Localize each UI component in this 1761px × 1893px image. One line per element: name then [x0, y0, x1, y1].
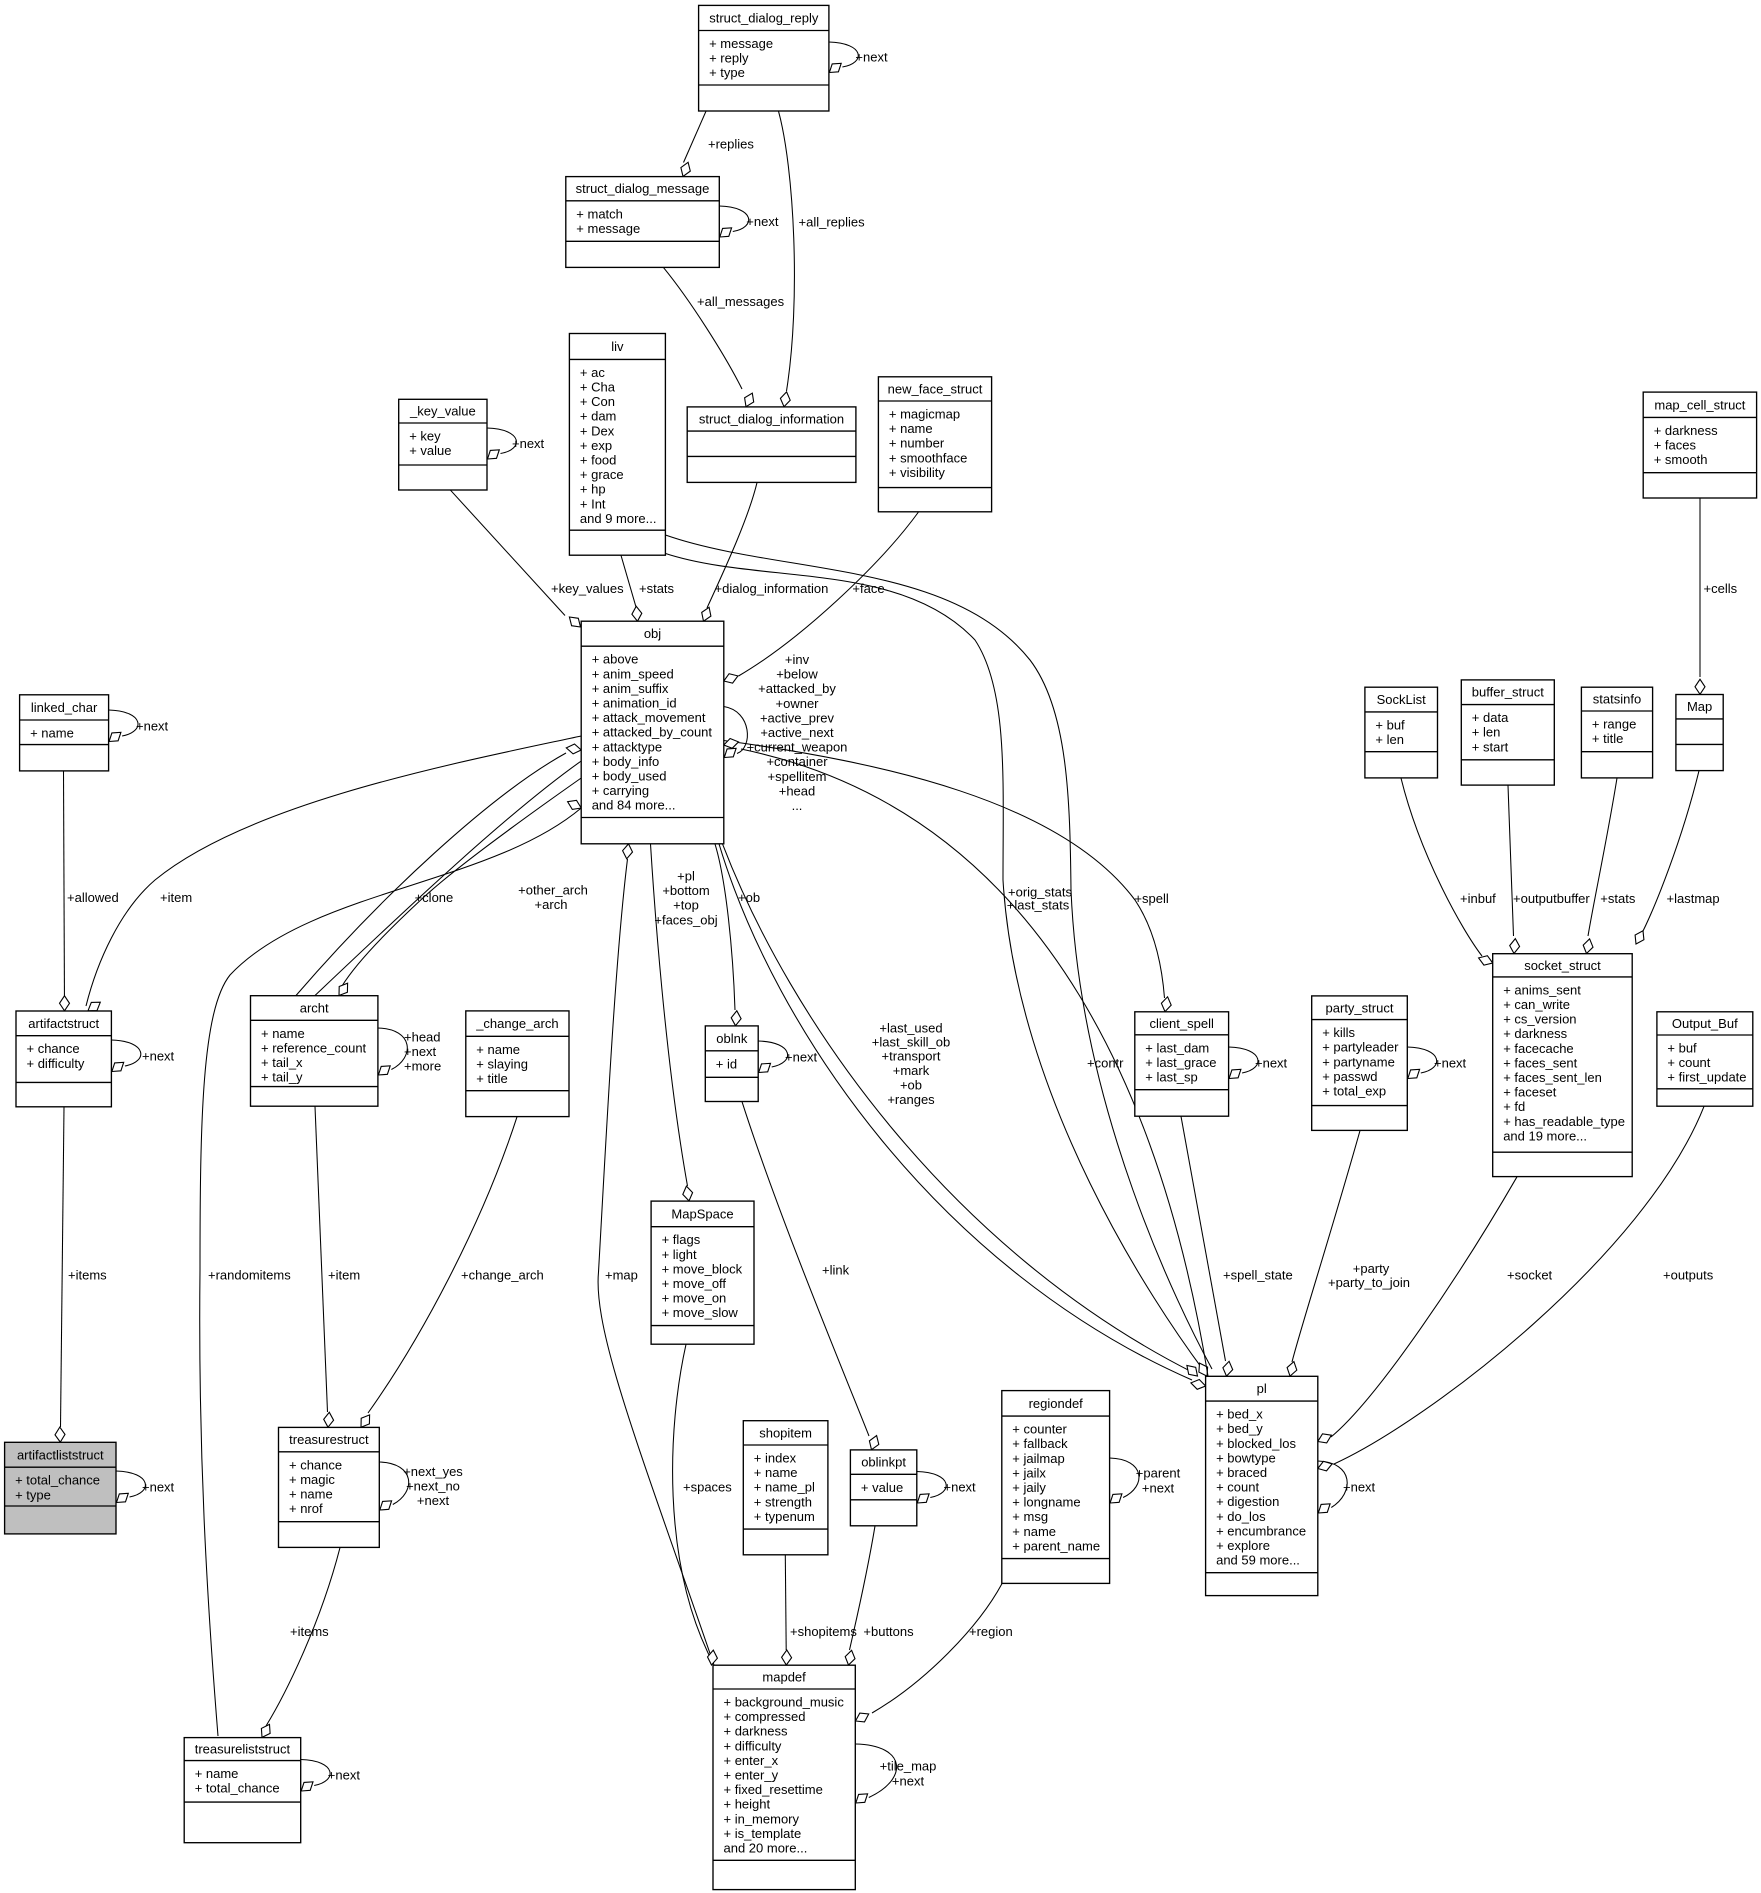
svg-text:+randomitems: +randomitems: [208, 1268, 291, 1283]
svg-text:+more: +more: [404, 1059, 441, 1074]
class box map_cell_struct: [1643, 392, 1756, 498]
svg-text:mapdef: mapdef: [762, 1670, 806, 1685]
svg-text:struct_dialog_information: struct_dialog_information: [699, 412, 844, 427]
svg-text:+ jailx: + jailx: [1012, 1465, 1046, 1480]
svg-text:+ darkness: + darkness: [1654, 423, 1718, 438]
edge oblnk +next self-loop: [758, 1041, 787, 1067]
class box obj: [581, 621, 724, 844]
svg-text:+ranges: +ranges: [887, 1092, 935, 1107]
svg-text:+owner: +owner: [776, 696, 820, 711]
svg-text:+ total_chance: + total_chance: [195, 1781, 280, 1796]
svg-text:+transport: +transport: [882, 1049, 941, 1064]
edge +spell_state (client_spell to pl): [1181, 1116, 1226, 1361]
class box oblnk: [705, 1026, 758, 1102]
svg-text:+socket: +socket: [1507, 1268, 1553, 1283]
svg-text:+next: +next: [136, 718, 169, 733]
edge treasureliststruct +next self-loop: [301, 1760, 330, 1786]
svg-text:MapSpace: MapSpace: [671, 1206, 733, 1221]
svg-text:+ anim_speed: + anim_speed: [592, 666, 674, 681]
edge +arch second line (archt to obj): [315, 761, 581, 996]
svg-text:+last_skill_ob: +last_skill_ob: [872, 1035, 950, 1050]
class box linked_char: [20, 695, 109, 771]
svg-text:+ chance: + chance: [27, 1041, 80, 1056]
svg-text:+ fixed_resettime: + fixed_resettime: [724, 1782, 823, 1797]
svg-text:+cells: +cells: [1704, 581, 1738, 596]
class box artifactliststruct: [5, 1442, 116, 1534]
svg-text:+last_used: +last_used: [879, 1021, 942, 1036]
svg-text:+ animation_id: + animation_id: [592, 696, 677, 711]
edge mapdef self-loop +tile_map +next: [855, 1744, 896, 1798]
class box struct_dialog_information: [687, 407, 856, 483]
svg-text:+spell_state: +spell_state: [1223, 1268, 1293, 1283]
svg-text:+next: +next: [512, 436, 545, 451]
svg-text:+ range: + range: [1592, 717, 1636, 732]
svg-text:+bottom: +bottom: [662, 883, 709, 898]
svg-text:+clone: +clone: [415, 890, 454, 905]
svg-text:+ buf: + buf: [1667, 1041, 1697, 1056]
svg-text:_key_value: _key_value: [409, 404, 476, 419]
class box party_struct: [1312, 996, 1408, 1131]
svg-text:+stats: +stats: [1600, 891, 1636, 906]
svg-text:+ darkness: + darkness: [1503, 1026, 1567, 1041]
svg-text:struct_dialog_message: struct_dialog_message: [576, 181, 710, 196]
svg-text:+ reference_count: + reference_count: [261, 1040, 367, 1055]
edge artifactliststruct +next self-loop: [116, 1471, 145, 1497]
svg-text:+next: +next: [892, 1773, 925, 1788]
svg-text:+ jailmap: + jailmap: [1012, 1451, 1064, 1466]
svg-text:+active_prev: +active_prev: [760, 710, 835, 725]
svg-text:+ message: + message: [576, 221, 640, 236]
class box statsinfo: [1581, 687, 1652, 778]
edge +key_values (_key_value to obj): [451, 490, 566, 615]
svg-text:+ first_update: + first_update: [1667, 1070, 1746, 1085]
svg-text:+ type: + type: [15, 1487, 51, 1502]
svg-text:pl: pl: [1257, 1381, 1267, 1396]
class box pl: [1206, 1376, 1318, 1595]
svg-text:+ typenum: + typenum: [754, 1509, 815, 1524]
class box archt: [251, 996, 378, 1106]
svg-text:+ food: + food: [580, 453, 617, 468]
class box treasureliststruct: [184, 1738, 301, 1843]
svg-text:+below: +below: [776, 667, 818, 682]
edge +all_replies (struct_dialog_reply to struct_dialog_information): [779, 111, 795, 391]
edge regiondef self-loop +parent +next: [1110, 1458, 1139, 1498]
svg-text:+ move_block: + move_block: [662, 1261, 743, 1276]
svg-text:+ digestion: + digestion: [1216, 1494, 1279, 1509]
svg-text:+next: +next: [785, 1049, 818, 1064]
svg-text:+ Con: + Con: [580, 394, 615, 409]
svg-text:+arch: +arch: [535, 897, 568, 912]
edge +contr (pl to obj): [741, 749, 1208, 1376]
edge +ob (obj to oblnk): [715, 844, 735, 1010]
svg-text:+ len: + len: [1375, 732, 1404, 747]
svg-text:+ tail_y: + tail_y: [261, 1070, 303, 1085]
svg-text:+ Dex: + Dex: [580, 423, 615, 438]
svg-text:artifactliststruct: artifactliststruct: [17, 1447, 104, 1462]
edge +outputbuffer (buffer_struct to socket_struct): [1508, 785, 1514, 936]
svg-text:+ has_readable_type: + has_readable_type: [1503, 1114, 1625, 1129]
svg-text:+ index: + index: [754, 1451, 797, 1466]
edge +dialog_information (struct_dialog_information to obj): [707, 483, 757, 608]
svg-text:+change_arch: +change_arch: [461, 1268, 544, 1283]
svg-text:+ type: + type: [709, 65, 745, 80]
svg-text:+link: +link: [822, 1263, 850, 1278]
svg-text:+ explore: + explore: [1216, 1538, 1270, 1553]
svg-text:+party_to_join: +party_to_join: [1328, 1275, 1410, 1290]
svg-text:Output_Buf: Output_Buf: [1672, 1016, 1738, 1031]
class box _change_arch: [466, 1011, 569, 1117]
svg-text:+ name: + name: [30, 726, 74, 741]
edge +lastmap (Map to socket_struct): [1640, 771, 1699, 937]
edge +stats (statsinfo to socket_struct): [1588, 778, 1617, 936]
svg-text:+region: +region: [969, 1624, 1013, 1639]
svg-text:+next: +next: [746, 214, 779, 229]
svg-text:+next: +next: [944, 1480, 977, 1495]
edge +buttons (oblinkpt to mapdef): [850, 1526, 876, 1650]
edge artifactstruct +next self-loop: [111, 1040, 140, 1066]
svg-text:+allowed: +allowed: [67, 890, 119, 905]
edge +spell (obj to client_spell): [724, 741, 1165, 999]
svg-text:Map: Map: [1687, 699, 1712, 714]
edge +items (treasurestruct to treasureliststruct): [266, 1548, 340, 1726]
svg-text:map_cell_struct: map_cell_struct: [1654, 397, 1745, 412]
svg-text:+ title: + title: [1592, 731, 1623, 746]
svg-text:+ parent_name: + parent_name: [1012, 1538, 1100, 1553]
svg-text:+ faceset: + faceset: [1503, 1085, 1557, 1100]
svg-text:+ difficulty: + difficulty: [724, 1738, 782, 1753]
class box oblinkpt: [850, 1450, 916, 1526]
class box socket_struct: [1493, 954, 1633, 1177]
class box _key_value: [399, 399, 487, 490]
svg-text:+ visibility: + visibility: [889, 465, 945, 480]
edge +allowed (linked_char to artifactstruct): [64, 771, 65, 1009]
svg-text:+ move_off: + move_off: [662, 1276, 727, 1291]
svg-text:+ count: + count: [1216, 1480, 1259, 1495]
edge +last_stats (liv to pl): [665, 535, 1212, 1369]
edge +pl +bottom +top +faces_obj (obj to MapSpace): [651, 844, 688, 1186]
svg-text:+next: +next: [328, 1768, 361, 1783]
svg-text:+ compressed: + compressed: [724, 1709, 806, 1724]
svg-text:+ is_template: + is_template: [724, 1826, 802, 1841]
svg-text:+ do_los: + do_los: [1216, 1509, 1266, 1524]
class box buffer_struct: [1461, 680, 1554, 785]
svg-text:+all_replies: +all_replies: [799, 215, 866, 230]
edge +orig_stats (liv to pl): [664, 553, 1204, 1371]
svg-text:+ magicmap: + magicmap: [889, 407, 960, 422]
svg-text:regiondef: regiondef: [1029, 1396, 1084, 1411]
svg-text:+ grace: + grace: [580, 467, 624, 482]
edge struct_dialog_message +next self-loop: [719, 206, 748, 232]
svg-text:+ jaily: + jaily: [1012, 1480, 1046, 1495]
svg-text:+items: +items: [68, 1268, 107, 1283]
edge +ranges second line (obj to pl): [719, 844, 1192, 1380]
svg-text:+ faces_sent_len: + faces_sent_len: [1503, 1070, 1602, 1085]
edge obj self-loop +inv +below +attacked_by +owner +active_prev +active_next +current_weapon +container +spellitem +head: [724, 707, 748, 754]
svg-text:+ nrof: + nrof: [289, 1501, 323, 1516]
svg-text:+ attack_movement: + attack_movement: [592, 710, 706, 725]
svg-text:+inv: +inv: [785, 652, 810, 667]
edge +replies (struct_dialog_reply to struct_dialog_message): [684, 111, 707, 162]
edge +shopitems (shopitem to mapdef): [784, 1555, 787, 1650]
svg-text:SockList: SockList: [1377, 692, 1427, 707]
svg-text:+key_values: +key_values: [551, 581, 624, 596]
class box struct_dialog_reply: [699, 5, 829, 111]
edge +outputs (Output_Buf to pl): [1334, 1106, 1704, 1464]
svg-text:+ name: + name: [476, 1042, 520, 1057]
class box SockList: [1365, 687, 1438, 778]
svg-text:+next_yes: +next_yes: [403, 1464, 463, 1479]
edge +last_used +last_skill_ob +transport +mark +ob +ranges (obj to pl): [723, 844, 1195, 1373]
svg-text:liv: liv: [611, 339, 624, 354]
edge +cells (map_cell_struct to Map): [1699, 498, 1701, 677]
edge client_spell +next self-loop: [1229, 1047, 1258, 1073]
edge +face (new_face_struct to obj): [739, 512, 919, 676]
svg-text:+ last_sp: + last_sp: [1145, 1070, 1197, 1085]
svg-text:+next: +next: [1343, 1480, 1376, 1495]
svg-text:+ height: + height: [724, 1797, 771, 1812]
svg-text:and 84 more...: and 84 more...: [592, 798, 676, 813]
svg-text:+ partyname: + partyname: [1322, 1054, 1395, 1069]
svg-text:+ hp: + hp: [580, 482, 606, 497]
svg-text:+tile_map: +tile_map: [880, 1759, 937, 1774]
svg-text:+top: +top: [673, 898, 699, 913]
svg-text:+active_next: +active_next: [760, 725, 834, 740]
svg-text:+ name: + name: [754, 1465, 798, 1480]
svg-text:+ body_used: + body_used: [592, 769, 667, 784]
edge +item (archt to treasurestruct): [315, 1106, 328, 1412]
svg-text:+ light: + light: [662, 1247, 697, 1262]
class box mapdef: [713, 1665, 855, 1889]
svg-text:+ message: + message: [709, 36, 773, 51]
svg-text:+ difficulty: + difficulty: [27, 1056, 85, 1071]
svg-text:+ Int: + Int: [580, 496, 606, 511]
svg-text:+replies: +replies: [708, 136, 754, 151]
svg-text:+ darkness: + darkness: [724, 1724, 788, 1739]
class box client_spell: [1135, 1012, 1229, 1116]
svg-text:+item: +item: [328, 1268, 360, 1283]
svg-text:+ smoothface: + smoothface: [889, 450, 967, 465]
svg-text:+inbuf: +inbuf: [1460, 891, 1496, 906]
svg-text:shopitem: shopitem: [759, 1425, 812, 1440]
svg-text:+next: +next: [404, 1044, 437, 1059]
svg-text:+ bed_x: + bed_x: [1216, 1407, 1263, 1422]
svg-text:new_face_struct: new_face_struct: [888, 381, 983, 396]
svg-text:+ passwd: + passwd: [1322, 1069, 1377, 1084]
class box MapSpace: [651, 1201, 754, 1344]
svg-text:+dialog_information: +dialog_information: [715, 581, 829, 596]
svg-text:+next: +next: [142, 1479, 175, 1494]
svg-text:+last_stats: +last_stats: [1007, 898, 1070, 913]
svg-text:+stats: +stats: [639, 581, 675, 596]
edge +change_arch (_change_arch to treasurestruct): [368, 1117, 517, 1413]
svg-text:+lastmap: +lastmap: [1667, 891, 1720, 906]
svg-text:+ match: + match: [576, 206, 623, 221]
svg-text:and 19 more...: and 19 more...: [1503, 1128, 1587, 1143]
svg-text:+ partyleader: + partyleader: [1322, 1040, 1399, 1055]
edge pl +next self-loop: [1318, 1461, 1347, 1508]
svg-text:+ smooth: + smooth: [1654, 452, 1708, 467]
edge +map (mapdef to obj): [598, 859, 714, 1665]
svg-text:+ encumbrance: + encumbrance: [1216, 1523, 1306, 1538]
svg-text:and 20 more...: and 20 more...: [724, 1841, 808, 1856]
svg-text:+ tail_x: + tail_x: [261, 1055, 303, 1070]
svg-text:+map: +map: [605, 1268, 638, 1283]
svg-text:struct_dialog_reply: struct_dialog_reply: [709, 10, 819, 25]
svg-text:+next: +next: [1142, 1480, 1175, 1495]
svg-text:+ counter: + counter: [1012, 1422, 1067, 1437]
svg-text:+ ac: + ac: [580, 365, 605, 380]
svg-text:+head: +head: [779, 783, 816, 798]
svg-text:buffer_struct: buffer_struct: [1472, 685, 1544, 700]
svg-text:+ number: + number: [889, 436, 945, 451]
svg-text:+ braced: + braced: [1216, 1465, 1267, 1480]
edge +socket (socket_struct to pl): [1331, 1177, 1517, 1437]
svg-text:+ body_info: + body_info: [592, 754, 660, 769]
edge oblinkpt +next self-loop: [917, 1472, 946, 1498]
edge treasurestruct self-loop +next_yes +next_no +next: [379, 1462, 408, 1505]
class box Map: [1676, 695, 1723, 771]
svg-text:+ dam: + dam: [580, 409, 617, 424]
svg-text:+next: +next: [1255, 1055, 1288, 1070]
edge linked_char +next self-loop: [109, 710, 138, 736]
svg-text:+all_messages: +all_messages: [697, 294, 785, 309]
svg-text:+ key: + key: [409, 429, 441, 444]
svg-text:+ bed_y: + bed_y: [1216, 1421, 1263, 1436]
svg-text:+ carrying: + carrying: [592, 783, 649, 798]
svg-text:+ longname: + longname: [1012, 1495, 1080, 1510]
svg-text:...: ...: [792, 798, 803, 813]
svg-text:socket_struct: socket_struct: [1524, 958, 1601, 973]
svg-text:client_spell: client_spell: [1150, 1016, 1214, 1031]
edge +items (artifactstruct to artifactliststruct): [61, 1107, 65, 1427]
svg-text:+ last_dam: + last_dam: [1145, 1040, 1209, 1055]
edge +all_messages (struct_dialog_message to struct_dialog_information): [664, 268, 743, 389]
svg-text:artifactstruct: artifactstruct: [28, 1016, 99, 1031]
edge +clone (obj to archt): [342, 778, 581, 986]
class box new_face_struct: [878, 377, 991, 512]
svg-text:+next: +next: [1434, 1055, 1467, 1070]
svg-text:+next_no: +next_no: [406, 1479, 460, 1494]
edge archt self-loop +head +next +more: [378, 1028, 407, 1070]
edge struct_dialog_reply +next self-loop: [829, 42, 858, 67]
svg-text:+mark: +mark: [893, 1063, 930, 1078]
svg-text:+ exp: + exp: [580, 438, 612, 453]
svg-text:+ reply: + reply: [709, 51, 749, 66]
svg-text:+ flags: + flags: [662, 1232, 701, 1247]
edge +stats (liv to obj): [621, 555, 636, 607]
svg-text:+ faces: + faces: [1654, 438, 1697, 453]
edge +randomitems (treasureliststruct to obj): [200, 808, 581, 1736]
svg-text:+ fd: + fd: [1503, 1099, 1525, 1114]
svg-text:+ Cha: + Cha: [580, 380, 616, 395]
svg-text:+next: +next: [855, 50, 888, 65]
svg-text:+ blocked_los: + blocked_los: [1216, 1436, 1296, 1451]
svg-text:+ total_chance: + total_chance: [15, 1473, 100, 1488]
svg-text:+ title: + title: [476, 1071, 507, 1086]
svg-text:+outputs: +outputs: [1663, 1268, 1714, 1283]
class box Output_Buf: [1657, 1012, 1753, 1106]
edge party_struct +next self-loop: [1407, 1047, 1436, 1073]
edge +other_arch +arch (archt to obj): [296, 753, 566, 996]
svg-text:+ count: + count: [1667, 1055, 1710, 1070]
svg-text:+ob: +ob: [900, 1078, 922, 1093]
svg-text:+ attacked_by_count: + attacked_by_count: [592, 725, 713, 740]
svg-text:+ background_music: + background_music: [724, 1695, 845, 1710]
class box liv: [569, 334, 665, 556]
svg-text:+ enter_y: + enter_y: [724, 1768, 779, 1783]
svg-text:+ name: + name: [195, 1766, 239, 1781]
svg-text:+spaces: +spaces: [683, 1480, 732, 1495]
svg-text:and 59 more...: and 59 more...: [1216, 1553, 1300, 1568]
svg-text:+ cs_version: + cs_version: [1503, 1012, 1576, 1027]
svg-text:+ in_memory: + in_memory: [724, 1811, 800, 1826]
class box shopitem: [743, 1421, 828, 1555]
svg-text:+other_arch: +other_arch: [518, 883, 588, 898]
svg-text:_change_arch: _change_arch: [475, 1016, 558, 1031]
svg-text:obj: obj: [644, 626, 661, 641]
edge +item (obj to artifactstruct): [86, 736, 581, 1006]
class box treasurestruct: [279, 1427, 380, 1547]
svg-text:+ move_slow: + move_slow: [662, 1305, 739, 1320]
svg-text:+shopitems: +shopitems: [790, 1624, 857, 1639]
svg-text:+ strength: + strength: [754, 1494, 812, 1509]
svg-text:+container: +container: [766, 754, 828, 769]
svg-text:+ value: + value: [409, 443, 451, 458]
svg-text:+ fallback: + fallback: [1012, 1436, 1068, 1451]
svg-text:+parent: +parent: [1136, 1466, 1181, 1481]
svg-text:+ enter_x: + enter_x: [724, 1753, 779, 1768]
svg-text:+ anim_suffix: + anim_suffix: [592, 681, 669, 696]
svg-text:party_struct: party_struct: [1326, 1000, 1394, 1015]
class box artifactstruct: [16, 1011, 111, 1107]
svg-text:+next: +next: [142, 1048, 175, 1063]
svg-text:+ kills: + kills: [1322, 1025, 1355, 1040]
svg-text:+ob: +ob: [738, 890, 760, 905]
svg-text:+ msg: + msg: [1012, 1509, 1048, 1524]
svg-text:+ buf: + buf: [1375, 717, 1405, 732]
svg-text:+ above: + above: [592, 652, 639, 667]
svg-text:+ can_write: + can_write: [1503, 997, 1570, 1012]
edge +link (oblnk to oblinkpt): [742, 1102, 869, 1436]
svg-text:+ id: + id: [716, 1056, 737, 1071]
svg-text:and 9 more...: and 9 more...: [580, 511, 657, 526]
svg-text:+ len: + len: [1472, 725, 1501, 740]
svg-text:+ total_exp: + total_exp: [1322, 1084, 1386, 1099]
svg-text:treasurestruct: treasurestruct: [289, 1432, 369, 1447]
svg-text:+outputbuffer: +outputbuffer: [1513, 891, 1590, 906]
svg-text:+ last_grace: + last_grace: [1145, 1055, 1216, 1070]
svg-text:+faces_obj: +faces_obj: [654, 912, 717, 927]
svg-text:+ chance: + chance: [289, 1457, 342, 1472]
edge _key_value +next self-loop: [487, 428, 516, 454]
svg-text:+head: +head: [404, 1029, 441, 1044]
svg-text:+ name: + name: [889, 421, 933, 436]
edge +inbuf (SockList to socket_struct): [1401, 778, 1482, 956]
svg-text:+ attacktype: + attacktype: [592, 739, 662, 754]
svg-text:treasureliststruct: treasureliststruct: [195, 1742, 291, 1757]
svg-text:+pl: +pl: [677, 869, 695, 884]
edge +spaces (MapSpace to mapdef): [673, 1344, 709, 1655]
svg-text:archt: archt: [300, 1001, 329, 1016]
svg-text:+ name: + name: [1012, 1524, 1056, 1539]
svg-text:+attacked_by: +attacked_by: [758, 681, 836, 696]
svg-text:oblinkpt: oblinkpt: [861, 1455, 906, 1470]
svg-text:+ name_pl: + name_pl: [754, 1480, 815, 1495]
class box struct_dialog_message: [566, 177, 720, 268]
svg-text:+ slaying: + slaying: [476, 1056, 528, 1071]
svg-text:+ name: + name: [261, 1026, 305, 1041]
svg-text:+next: +next: [417, 1493, 450, 1508]
